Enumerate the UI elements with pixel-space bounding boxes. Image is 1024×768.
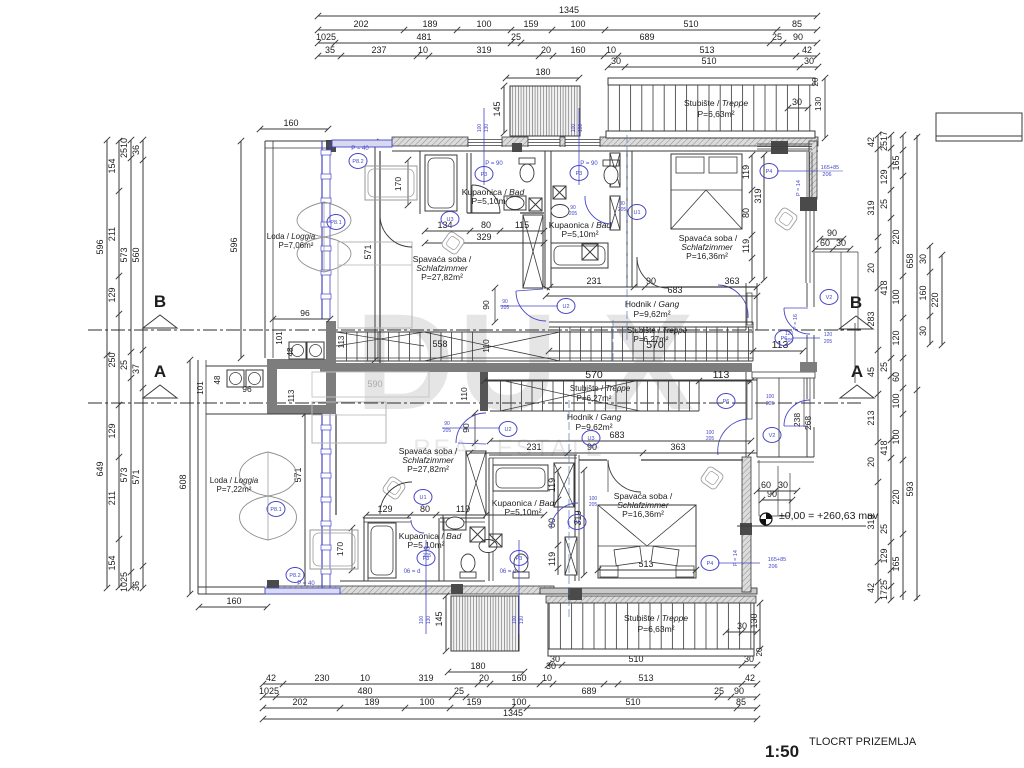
- svg-text:119: 119: [456, 504, 470, 514]
- svg-text:30: 30: [611, 56, 621, 66]
- svg-text:Stubište / Treppe: Stubište / Treppe: [570, 384, 631, 393]
- svg-text:60: 60: [820, 238, 830, 248]
- svg-text:319: 319: [866, 200, 876, 215]
- svg-text:560: 560: [131, 247, 141, 262]
- svg-text:U2: U2: [562, 304, 569, 310]
- svg-text:160: 160: [918, 285, 928, 300]
- svg-text:205: 205: [766, 401, 775, 407]
- svg-text:130: 130: [813, 97, 823, 111]
- svg-text:P = 90: P = 90: [485, 161, 503, 167]
- svg-text:V2: V2: [826, 295, 833, 301]
- svg-text:Loda / Loggia: Loda / Loggia: [267, 232, 316, 241]
- svg-text:30: 30: [918, 326, 928, 336]
- svg-text:130: 130: [578, 124, 584, 133]
- svg-text:205: 205: [501, 305, 510, 311]
- svg-text:20: 20: [541, 45, 551, 55]
- svg-text:159: 159: [466, 697, 481, 707]
- svg-text:170: 170: [393, 177, 403, 191]
- svg-text:570: 570: [585, 369, 603, 381]
- svg-text:90: 90: [587, 442, 597, 452]
- svg-text:160: 160: [570, 45, 585, 55]
- svg-text:1025: 1025: [119, 572, 129, 592]
- svg-text:37: 37: [131, 364, 141, 374]
- svg-text:36: 36: [131, 581, 141, 591]
- svg-text:25: 25: [714, 686, 724, 696]
- svg-text:130: 130: [519, 616, 525, 625]
- svg-text:P=7,06m²: P=7,06m²: [279, 241, 314, 250]
- svg-text:1345: 1345: [559, 5, 579, 15]
- svg-text:P = 14: P = 14: [796, 180, 802, 196]
- svg-text:36: 36: [131, 145, 141, 155]
- svg-text:145: 145: [434, 611, 444, 626]
- svg-text:30: 30: [546, 661, 556, 671]
- svg-text:101: 101: [196, 381, 205, 395]
- svg-text:689: 689: [581, 686, 596, 696]
- svg-text:129: 129: [107, 423, 117, 438]
- svg-text:2510: 2510: [119, 138, 129, 158]
- svg-text:480: 480: [357, 686, 372, 696]
- svg-text:689: 689: [639, 32, 654, 42]
- svg-text:100: 100: [891, 393, 901, 408]
- svg-text:20: 20: [866, 263, 876, 273]
- svg-text:205: 205: [423, 553, 432, 559]
- svg-text:130: 130: [484, 124, 490, 133]
- svg-text:100: 100: [891, 429, 901, 444]
- svg-text:220: 220: [891, 489, 901, 504]
- svg-text:205: 205: [618, 207, 627, 213]
- svg-text:U1: U1: [419, 495, 426, 501]
- svg-text:113: 113: [287, 389, 296, 402]
- svg-text:B: B: [154, 292, 166, 311]
- svg-text:205: 205: [785, 338, 794, 344]
- svg-text:P3: P3: [481, 172, 488, 178]
- svg-text:113: 113: [713, 369, 730, 381]
- svg-text:165+85: 165+85: [768, 557, 787, 563]
- svg-text:319: 319: [753, 188, 763, 203]
- svg-text:U2: U2: [504, 427, 511, 433]
- svg-text:100: 100: [571, 124, 577, 133]
- svg-text:90: 90: [646, 276, 656, 286]
- svg-text:P=5,10m²: P=5,10m²: [504, 507, 541, 517]
- svg-text:101: 101: [275, 331, 284, 345]
- svg-text:P=5,10m²: P=5,10m²: [471, 196, 508, 206]
- svg-text:10: 10: [360, 673, 370, 683]
- svg-text:1345: 1345: [503, 708, 523, 718]
- svg-text:211: 211: [107, 491, 117, 505]
- svg-text:202: 202: [353, 19, 368, 29]
- svg-text:P = 40: P = 40: [351, 146, 369, 152]
- svg-text:510: 510: [683, 19, 698, 29]
- svg-text:100: 100: [570, 19, 585, 29]
- svg-text:30: 30: [778, 480, 788, 490]
- svg-text:85: 85: [792, 19, 802, 29]
- svg-text:513: 513: [699, 45, 714, 55]
- svg-text:129: 129: [879, 548, 889, 563]
- svg-text:06 = d: 06 = d: [404, 569, 421, 575]
- svg-text:85: 85: [736, 697, 746, 707]
- svg-text:P=6,27m²: P=6,27m²: [577, 394, 612, 403]
- svg-text:42: 42: [745, 673, 755, 683]
- svg-text:10: 10: [606, 45, 616, 55]
- svg-text:P8.2: P8.2: [289, 573, 300, 579]
- svg-text:P = 90: P = 90: [580, 161, 598, 167]
- svg-text:165: 165: [891, 155, 901, 170]
- svg-text:25: 25: [454, 686, 464, 696]
- svg-text:30: 30: [737, 621, 747, 631]
- svg-text:129: 129: [879, 169, 889, 184]
- svg-text:205: 205: [589, 502, 598, 508]
- svg-text:510: 510: [625, 697, 640, 707]
- svg-text:211: 211: [107, 227, 117, 241]
- svg-text:180: 180: [470, 661, 485, 671]
- svg-text:P=9,62m²: P=9,62m²: [633, 309, 670, 319]
- svg-text:145: 145: [492, 101, 502, 116]
- svg-text:U3: U3: [446, 217, 453, 223]
- svg-text:130: 130: [426, 616, 432, 625]
- svg-text:165+85: 165+85: [821, 165, 840, 171]
- svg-text:129: 129: [107, 287, 117, 302]
- svg-text:363: 363: [670, 442, 685, 452]
- svg-text:418: 418: [879, 280, 889, 295]
- svg-text:P=27,82m²: P=27,82m²: [421, 272, 463, 282]
- svg-text:100: 100: [766, 394, 775, 400]
- svg-text:1025: 1025: [259, 686, 279, 696]
- svg-text:658: 658: [905, 253, 915, 268]
- svg-text:238: 238: [792, 413, 802, 427]
- svg-text:Stubište / Treppe: Stubište / Treppe: [684, 98, 748, 108]
- svg-text:42: 42: [802, 45, 812, 55]
- svg-text:Stubište / Treppe: Stubište / Treppe: [624, 613, 688, 623]
- svg-text:558: 558: [432, 339, 447, 349]
- svg-text:42: 42: [866, 137, 876, 147]
- svg-text:119: 119: [547, 552, 557, 566]
- svg-text:573: 573: [119, 247, 129, 262]
- svg-text:154: 154: [107, 555, 117, 570]
- svg-text:130: 130: [749, 613, 759, 628]
- svg-text:268: 268: [803, 416, 813, 430]
- svg-text:513: 513: [638, 673, 653, 683]
- svg-text:100: 100: [512, 616, 518, 625]
- svg-text:25: 25: [879, 362, 889, 372]
- svg-text:205: 205: [443, 428, 452, 434]
- svg-text:649: 649: [95, 461, 105, 476]
- svg-text:80: 80: [420, 504, 430, 514]
- svg-text:120: 120: [824, 332, 833, 338]
- svg-text:189: 189: [364, 697, 379, 707]
- svg-text:100: 100: [477, 124, 483, 133]
- svg-text:113: 113: [337, 335, 346, 348]
- svg-text:2517: 2517: [879, 131, 889, 151]
- svg-text:100: 100: [419, 616, 425, 625]
- svg-text:206: 206: [768, 564, 777, 570]
- svg-text:90: 90: [444, 421, 450, 427]
- svg-text:1725: 1725: [879, 580, 889, 600]
- svg-text:P3: P3: [516, 556, 523, 562]
- svg-text:P = 16: P = 16: [793, 314, 799, 330]
- svg-text:120: 120: [785, 331, 794, 337]
- svg-text:159: 159: [523, 19, 538, 29]
- svg-text:160: 160: [226, 596, 241, 606]
- svg-text:90: 90: [827, 228, 837, 238]
- svg-text:206: 206: [822, 172, 831, 178]
- svg-text:115: 115: [515, 220, 529, 230]
- svg-text:TLOCRT PRIZEMLJA: TLOCRT PRIZEMLJA: [809, 736, 917, 748]
- svg-text:571: 571: [293, 467, 303, 482]
- svg-text:231: 231: [586, 276, 601, 286]
- svg-text:683: 683: [667, 285, 682, 295]
- svg-text:P8.1: P8.1: [330, 220, 341, 226]
- svg-text:96: 96: [300, 308, 310, 318]
- svg-text:P3: P3: [576, 171, 583, 177]
- svg-text:220: 220: [891, 229, 901, 244]
- svg-text:P=5,10m²: P=5,10m²: [561, 229, 598, 239]
- svg-text:20: 20: [755, 647, 764, 656]
- svg-text:Loda / Loggia: Loda / Loggia: [210, 476, 259, 485]
- svg-text:20: 20: [866, 457, 876, 467]
- svg-text:110: 110: [459, 387, 469, 401]
- svg-text:P=6,63m²: P=6,63m²: [697, 109, 734, 119]
- svg-text:418: 418: [879, 440, 889, 455]
- svg-text:231: 231: [526, 442, 541, 452]
- svg-text:P4: P4: [707, 561, 714, 567]
- svg-text:42: 42: [266, 673, 276, 683]
- svg-text:V2: V2: [769, 433, 776, 439]
- svg-text:P=7,22m²: P=7,22m²: [217, 485, 252, 494]
- svg-text:35: 35: [325, 45, 335, 55]
- svg-text:P4: P4: [766, 169, 773, 175]
- svg-text:P = 14: P = 14: [733, 550, 739, 566]
- svg-text:596: 596: [229, 237, 239, 252]
- svg-text:A: A: [154, 362, 166, 381]
- svg-text:160: 160: [283, 118, 298, 128]
- svg-text:Hodnik / Gang: Hodnik / Gang: [567, 412, 622, 422]
- svg-text:80: 80: [481, 220, 491, 230]
- svg-text:590: 590: [367, 379, 382, 389]
- svg-text:20: 20: [811, 77, 820, 86]
- svg-text:481: 481: [416, 32, 431, 42]
- svg-text:593: 593: [905, 481, 915, 496]
- svg-text:573: 573: [119, 467, 129, 482]
- svg-text:213: 213: [866, 410, 876, 425]
- svg-text:Hodnik / Gang: Hodnik / Gang: [625, 299, 680, 309]
- svg-text:205: 205: [824, 339, 833, 345]
- svg-text:U1: U1: [633, 210, 640, 216]
- svg-text:220: 220: [930, 292, 940, 307]
- svg-text:119: 119: [741, 239, 751, 253]
- svg-text:25: 25: [511, 32, 521, 42]
- svg-text:60: 60: [891, 372, 901, 382]
- svg-text:363: 363: [724, 276, 739, 286]
- svg-text:P=16,36m²: P=16,36m²: [622, 509, 664, 519]
- svg-text:100: 100: [891, 289, 901, 304]
- svg-text:P=27,82m²: P=27,82m²: [407, 464, 449, 474]
- svg-text:30: 30: [804, 56, 814, 66]
- svg-text:25: 25: [119, 360, 129, 370]
- svg-text:96: 96: [242, 384, 252, 394]
- svg-text:10: 10: [542, 673, 552, 683]
- svg-text:237: 237: [371, 45, 386, 55]
- svg-text:1:50: 1:50: [765, 742, 799, 761]
- svg-text:A: A: [851, 362, 863, 381]
- svg-text:100: 100: [419, 697, 434, 707]
- svg-text:P8.2: P8.2: [352, 159, 363, 165]
- svg-text:319: 319: [418, 673, 433, 683]
- svg-text:571: 571: [131, 469, 141, 484]
- svg-text:319: 319: [476, 45, 491, 55]
- svg-text:±0,00 = +260,63 mnv: ±0,00 = +260,63 mnv: [779, 510, 879, 522]
- svg-text:154: 154: [107, 158, 117, 173]
- svg-text:06 = d: 06 = d: [500, 569, 517, 575]
- svg-text:45: 45: [866, 367, 876, 377]
- svg-text:510: 510: [701, 56, 716, 66]
- svg-text:P=16,36m²: P=16,36m²: [686, 251, 728, 261]
- svg-text:165: 165: [891, 556, 901, 571]
- svg-text:P = 40: P = 40: [297, 581, 315, 587]
- svg-text:90: 90: [793, 32, 803, 42]
- svg-text:B: B: [850, 293, 862, 312]
- svg-text:1025: 1025: [316, 32, 336, 42]
- svg-text:110: 110: [481, 339, 491, 353]
- svg-text:30: 30: [918, 254, 928, 264]
- svg-text:90: 90: [481, 300, 491, 310]
- svg-text:20: 20: [479, 673, 489, 683]
- svg-text:25: 25: [772, 32, 782, 42]
- svg-text:U1: U1: [573, 520, 580, 526]
- svg-text:170: 170: [335, 542, 345, 556]
- svg-text:180: 180: [535, 67, 550, 77]
- svg-text:P8.1: P8.1: [270, 507, 281, 513]
- svg-text:42: 42: [866, 583, 876, 593]
- svg-text:30: 30: [836, 238, 846, 248]
- svg-text:329: 329: [476, 232, 491, 242]
- svg-text:230: 230: [314, 673, 329, 683]
- svg-text:90: 90: [734, 686, 744, 696]
- svg-text:189: 189: [422, 19, 437, 29]
- svg-text:60: 60: [761, 480, 771, 490]
- svg-text:25: 25: [879, 524, 889, 534]
- svg-text:48: 48: [213, 375, 222, 384]
- svg-text:D: D: [356, 286, 455, 439]
- svg-text:100: 100: [511, 697, 526, 707]
- svg-text:U3: U3: [587, 436, 594, 442]
- svg-text:202: 202: [292, 697, 307, 707]
- svg-text:100: 100: [476, 19, 491, 29]
- svg-text:30: 30: [792, 97, 802, 107]
- svg-text:608: 608: [178, 474, 188, 489]
- svg-text:596: 596: [95, 239, 105, 254]
- svg-text:Stubište / Treppe: Stubište / Treppe: [627, 326, 688, 335]
- svg-text:80: 80: [424, 546, 430, 552]
- svg-text:250: 250: [107, 352, 117, 367]
- svg-text:25: 25: [879, 199, 889, 209]
- svg-text:P=6,63m²: P=6,63m²: [637, 624, 674, 634]
- svg-text:48: 48: [286, 347, 295, 356]
- svg-text:570: 570: [646, 339, 664, 351]
- svg-text:10: 10: [418, 45, 428, 55]
- svg-text:P6: P6: [723, 399, 730, 405]
- svg-text:120: 120: [891, 330, 901, 345]
- svg-text:160: 160: [511, 673, 526, 683]
- svg-text:571: 571: [363, 244, 373, 259]
- svg-text:205: 205: [569, 211, 578, 217]
